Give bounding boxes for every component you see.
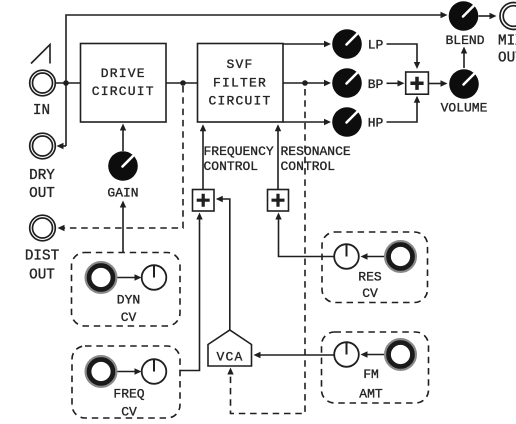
svg-text:MIX: MIX [498,33,516,49]
svg-text:SVF: SVF [226,57,253,72]
svg-text:RES: RES [358,269,382,284]
svg-text:CV: CV [121,404,137,419]
svg-text:VOLUME: VOLUME [441,101,488,116]
svg-text:OUT: OUT [29,268,55,284]
svg-text:CIRCUIT: CIRCUIT [92,84,155,99]
svg-text:CONTROL: CONTROL [281,159,336,174]
svg-text:CIRCUIT: CIRCUIT [208,94,271,109]
svg-text:OUT: OUT [498,51,516,67]
svg-text:IN: IN [33,103,50,119]
svg-text:LP: LP [368,37,384,52]
svg-text:DRIVE: DRIVE [101,66,146,81]
svg-text:AMT: AMT [359,386,383,401]
svg-text:DYN: DYN [117,292,140,307]
svg-text:DRY: DRY [29,168,55,184]
svg-text:FM: FM [363,367,379,382]
svg-text:BP: BP [368,77,384,92]
svg-text:VCA: VCA [216,350,243,365]
svg-text:FREQUENCY: FREQUENCY [204,144,274,159]
svg-text:CONTROL: CONTROL [204,159,259,174]
svg-text:FILTER: FILTER [213,76,267,91]
svg-text:HP: HP [368,115,384,130]
svg-text:OUT: OUT [29,186,55,202]
svg-text:FREQ: FREQ [113,387,144,402]
svg-text:DIST: DIST [25,249,60,265]
svg-text:RESONANCE: RESONANCE [281,144,351,159]
svg-text:CV: CV [121,310,137,325]
svg-text:BLEND: BLEND [445,33,484,48]
svg-text:CV: CV [362,286,378,301]
svg-text:GAIN: GAIN [107,185,138,200]
